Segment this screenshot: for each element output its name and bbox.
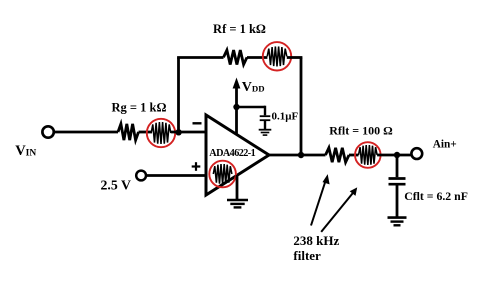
- op-amp scribble (circled): [213, 164, 232, 184]
- highlight circle on Rg: [147, 119, 175, 147]
- svg-text:238 kHz: 238 kHz: [293, 233, 339, 248]
- wire: [247, 56, 267, 59]
- terminal VIN: [42, 126, 53, 137]
- node junction output/feedback: [298, 152, 304, 158]
- wire: [377, 154, 411, 157]
- node junction Rflt/Cflt: [394, 152, 400, 158]
- resistor Rf: [224, 50, 248, 64]
- highlight circle on op-amp: [209, 161, 236, 188]
- wire VIN to Rg: [54, 131, 118, 134]
- terminal Ain+: [411, 148, 422, 159]
- op-amp U1 triangle: [206, 115, 269, 195]
- wire VDD to bypass cap: [237, 106, 266, 109]
- svg-text:filter: filter: [293, 248, 321, 263]
- wire feedback right vertical: [300, 58, 303, 156]
- svg-text:0.1μF: 0.1μF: [272, 110, 299, 122]
- wire feedback top left: [177, 56, 223, 59]
- svg-text:ADA4622-1: ADA4622-1: [209, 148, 255, 159]
- svg-text:2.5 V: 2.5 V: [101, 177, 131, 192]
- VDD arrow: [235, 86, 238, 135]
- svg-text:Rflt = 100 Ω: Rflt = 100 Ω: [329, 123, 393, 137]
- resistor Rf scribble (circled): [267, 47, 287, 67]
- terminal 2.5V: [136, 171, 146, 181]
- resistor Rg scribble (circled): [151, 122, 171, 144]
- svg-text:Cflt = 6.2 nF: Cflt = 6.2 nF: [404, 189, 468, 203]
- ground (op-amp): [227, 199, 248, 202]
- highlight circle on Rf: [263, 42, 291, 70]
- wire: [287, 56, 303, 59]
- annotation arrow 1: [311, 180, 326, 226]
- ground (Cflt): [388, 216, 407, 219]
- highlight circle on Rflt: [355, 142, 381, 168]
- wire feedback left vertical: [177, 58, 180, 133]
- svg-text:Rg = 1 kΩ: Rg = 1 kΩ: [112, 100, 167, 114]
- ground (bypass cap): [259, 129, 272, 131]
- node junction VDD/cap: [233, 104, 239, 110]
- wire: [349, 154, 359, 157]
- wire: [171, 131, 206, 134]
- annotation arrow 2: [321, 192, 353, 232]
- wire: [139, 131, 153, 134]
- wire 2.5V to plus input: [146, 174, 206, 177]
- wire op-amp output: [267, 154, 326, 157]
- resistor Rflt: [326, 148, 350, 162]
- resistor Rflt scribble (circled): [359, 145, 378, 165]
- op-amp minus sign: [193, 122, 202, 124]
- svg-text:Ain+: Ain+: [433, 139, 457, 151]
- svg-text:Rf = 1 kΩ: Rf = 1 kΩ: [213, 22, 266, 36]
- capacitor C 0.1uF: [264, 106, 266, 116]
- op-amp plus sign: [192, 165, 201, 167]
- capacitor Cflt: [396, 155, 399, 177]
- resistor Rg: [118, 124, 139, 140]
- node junction Rg/feedback: [175, 129, 181, 135]
- wire op-amp to ground: [236, 175, 239, 199]
